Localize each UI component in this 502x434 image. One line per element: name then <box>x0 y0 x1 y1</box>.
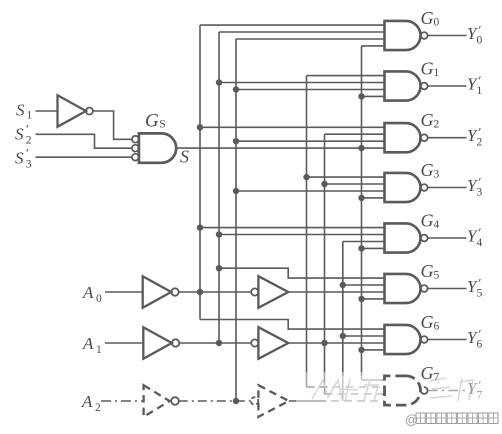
junction dot A2'/G1 <box>233 86 239 92</box>
svg-text:0: 0 <box>477 35 483 47</box>
svg-text:G: G <box>145 111 159 132</box>
inverter A1 first stage output bubble <box>172 339 179 346</box>
watermark wash overlay <box>296 372 502 409</box>
wire A0 buffered output into G5 input 3 <box>288 291 384 293</box>
wire G1 input 1 <box>307 75 385 77</box>
junction dot S/G6 <box>358 347 364 353</box>
junction dot S/G2 <box>358 145 364 151</box>
junction dot A1/G3 <box>321 181 327 187</box>
buffer A1 second stage input bubble <box>251 339 258 346</box>
svg-text:S: S <box>180 147 189 167</box>
svg-text:6: 6 <box>477 339 483 351</box>
svg-text:S: S <box>16 101 25 120</box>
wire G1 input 2 <box>219 82 385 84</box>
junction dot S/G5 <box>358 296 364 302</box>
junction dot A2'/G2 <box>233 138 239 144</box>
bus A0 buffered vertical (x=306.5) <box>306 76 308 387</box>
svg-text:S: S <box>15 149 24 168</box>
svg-text:5: 5 <box>477 288 483 300</box>
NAND gate G7 <box>385 376 421 405</box>
NAND gate G0 <box>385 21 421 50</box>
svg-text:7: 7 <box>434 372 440 384</box>
wire Y6 output <box>428 339 467 341</box>
gate Gs input bubble middle <box>132 145 139 152</box>
svg-text:S: S <box>159 119 165 131</box>
wire Y1 output <box>428 85 467 87</box>
wire Y0 output <box>428 35 467 37</box>
wire G6 input 4 <box>362 349 385 351</box>
svg-text:G: G <box>421 312 434 332</box>
wire Y4 output <box>428 237 467 239</box>
junction dot A2/G5 <box>340 282 346 288</box>
svg-text:1: 1 <box>27 110 33 122</box>
wire A0' node line to second stage input <box>179 291 252 293</box>
wire A2' node line (dash-dot) to second stage <box>179 400 251 402</box>
buffer A2 second stage input bubble (dashed) <box>251 397 258 404</box>
svg-text:A: A <box>82 283 94 302</box>
NAND gate G4 <box>385 223 421 252</box>
wire G0 input 4 <box>362 45 385 47</box>
junction dot A2/G6 <box>340 333 346 339</box>
inverter A2 first stage output bubble <box>171 397 179 405</box>
wire A1' node line to second stage input <box>179 342 251 344</box>
NAND gate G1 <box>385 71 421 100</box>
inverter A1 first stage <box>143 327 172 359</box>
svg-text:G: G <box>421 363 434 383</box>
junction dot S/G4 <box>358 245 364 251</box>
wire G1 input 3 <box>236 89 385 91</box>
wire A1 buffered output into G6 input 3 <box>288 342 384 344</box>
wire Y5 output <box>428 288 467 290</box>
inverter A2 first stage (dashed) <box>144 385 170 417</box>
svg-text:1: 1 <box>434 67 440 79</box>
wire A2 buffered output (solid then dashed) to G7 input 4 <box>289 400 318 402</box>
wire S1 inverter output to Gs top input <box>93 111 132 139</box>
wire Y7 output <box>428 390 467 392</box>
NAND gate G2 <box>385 123 421 152</box>
junction dot A2' bus source <box>233 398 239 404</box>
wire G2 input 2 <box>325 133 385 135</box>
wire A1 dashed into G7 input 3 <box>325 393 385 395</box>
wire G0 input 3 <box>236 38 385 40</box>
svg-text:A: A <box>82 334 94 353</box>
svg-text:G: G <box>421 59 434 79</box>
wire S into G7 input 1 <box>362 379 385 381</box>
bus A2' vertical (x=236) <box>235 39 237 401</box>
svg-text:3: 3 <box>434 169 440 181</box>
svg-text:G: G <box>421 211 434 231</box>
svg-text:4: 4 <box>434 219 440 231</box>
svg-text:2: 2 <box>434 119 440 131</box>
svg-text:3: 3 <box>477 187 483 199</box>
buffer A0 second stage input bubble <box>251 288 258 295</box>
inverter A0 first stage output bubble <box>171 288 178 295</box>
wire Y3 output <box>428 187 467 189</box>
wire G6 input 2 <box>343 335 385 337</box>
junction dot A1'/G1 <box>216 79 222 85</box>
wire G4 input 3 <box>343 241 385 243</box>
NAND gate G6 <box>385 325 421 354</box>
wire G4 input 1 <box>200 227 385 229</box>
wire A0 input <box>105 291 143 293</box>
junction dot A1'/G4 <box>216 231 222 237</box>
gate Gs input bubble bottom <box>132 154 139 161</box>
wire G0 input 2 <box>219 31 385 33</box>
svg-text:7: 7 <box>477 390 483 402</box>
wire G2 input 3 <box>236 140 385 142</box>
svg-text:0: 0 <box>96 293 102 305</box>
wire G5 input 2 <box>343 284 385 286</box>
junction dot A0/G3 <box>303 174 309 180</box>
inverter S1 output bubble <box>86 108 93 115</box>
gate Gs (AND shape) <box>139 133 176 162</box>
bus A1 buffered vertical (x=324.5) <box>324 134 326 394</box>
junction dot A1 buffered bus source <box>321 340 327 346</box>
bus S vertical (x=361.5) <box>361 46 363 380</box>
buffer A2 second stage (dashed) <box>258 385 288 417</box>
watermark text @xitu juejin <box>405 412 498 427</box>
inverter A0 first stage <box>143 276 172 308</box>
svg-text:G: G <box>421 8 434 28</box>
svg-text:G: G <box>421 261 434 281</box>
svg-text:2: 2 <box>477 137 483 149</box>
svg-text:3: 3 <box>26 159 32 171</box>
wire G1 input 4 <box>362 95 385 97</box>
inverter S1 (G1 stage) <box>58 95 87 127</box>
junction dot S/G3 <box>358 195 364 201</box>
wire G2 input 1 <box>200 126 385 128</box>
bus A2 buffered vertical (x=342.8) <box>342 242 344 402</box>
wire S1 input <box>36 110 58 112</box>
junction dot A0'/G2 <box>197 124 203 130</box>
svg-text:S: S <box>15 125 24 144</box>
svg-text:2: 2 <box>95 402 101 414</box>
wire G4 input 4 <box>362 247 385 249</box>
wire A2 input (dash-dot) <box>101 400 144 402</box>
junction dot A0' bus source <box>197 289 203 295</box>
wire G5 input 4 <box>362 298 385 300</box>
buffer A1 second stage <box>258 327 288 359</box>
svg-text:5: 5 <box>434 270 440 282</box>
wire A1' route to G5 input 1 <box>219 268 385 278</box>
wire A1 input <box>105 342 143 344</box>
wire G3 input 4 <box>362 197 385 199</box>
NAND gate G5 <box>385 274 421 303</box>
junction dot A0'/G4 <box>197 224 203 230</box>
gate Gs input bubble top <box>132 136 139 143</box>
NAND gate G3 <box>385 173 421 202</box>
wire Y2 output <box>428 137 467 139</box>
wire A0' route to G6 input 1 <box>200 320 385 330</box>
svg-text:G: G <box>421 110 434 130</box>
wire S2' to Gs middle input <box>36 134 132 148</box>
wire S3' to Gs bottom input <box>36 156 132 158</box>
wire G4 input 2 <box>219 234 385 236</box>
buffer A0 second stage <box>258 276 288 308</box>
svg-text:4: 4 <box>477 237 483 249</box>
svg-text:1: 1 <box>96 344 102 356</box>
svg-text:1: 1 <box>477 85 483 97</box>
svg-text:G: G <box>421 160 434 180</box>
wire G3 input 1 <box>307 176 385 178</box>
junction dot A1' bus source <box>216 340 222 346</box>
wire G0 input 1 <box>200 24 385 26</box>
junction dot A2'/G3 <box>233 188 239 194</box>
wire G3 input 3 <box>236 190 385 192</box>
junction dot S/G1 <box>358 93 364 99</box>
svg-text:6: 6 <box>434 321 440 333</box>
svg-text:0: 0 <box>434 17 440 29</box>
wire A0 dashed into G7 input 2 <box>307 386 385 388</box>
bus A0' vertical (x=200) <box>199 25 201 319</box>
junction dot A1' branch to G5 <box>216 265 222 271</box>
wire G3 input 2 <box>325 183 385 185</box>
wire S: Gs output to G2 input 4 (horizontal S line) <box>176 147 384 149</box>
bus A1' vertical (x=219) <box>218 32 220 343</box>
svg-text:A: A <box>81 392 93 411</box>
